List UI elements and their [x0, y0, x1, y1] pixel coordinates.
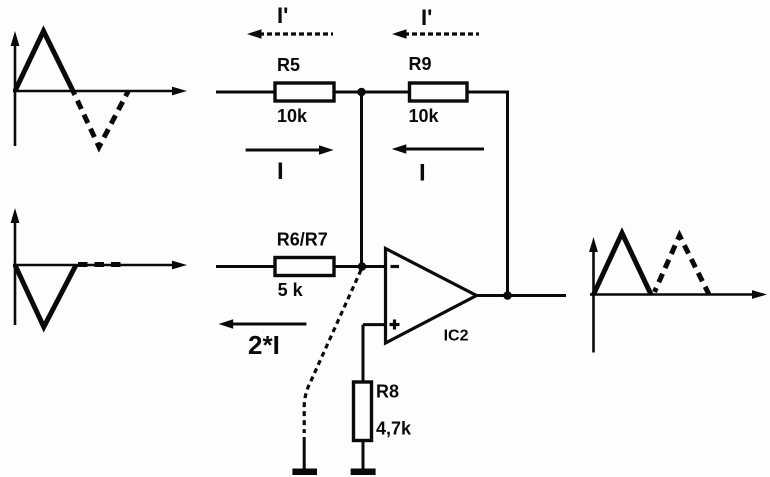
- input waveform 2 vertical axis: [11, 208, 20, 325]
- input waveform 1 solid positive triangle half-wave: [15, 31, 73, 91]
- output waveform dashed triangle pulse: [655, 236, 710, 295]
- output waveform solid triangle pulse: [594, 233, 652, 295]
- svg-text:R6/R7: R6/R7: [277, 230, 328, 250]
- wire: R9 right to feedback corner: [467, 91, 508, 94]
- svg-text:R9: R9: [409, 54, 432, 74]
- wire: virtual ground stub: [303, 437, 306, 469]
- current arrow I' (dashed, above R5): [247, 29, 333, 38]
- wire: input 1 to R5 left: [216, 91, 275, 94]
- svg-text:10k: 10k: [277, 106, 308, 126]
- wire: feedback vertical down to output node: [506, 91, 509, 296]
- ground (virtual ground): [292, 469, 317, 476]
- wire: non-inverting input horizontal: [363, 323, 386, 326]
- output waveform horizontal axis: [590, 290, 767, 299]
- svg-text:I: I: [277, 158, 284, 185]
- svg-text:R5: R5: [277, 55, 300, 75]
- current arrow I (solid, below R9): [392, 144, 484, 153]
- svg-text:5 k: 5 k: [278, 280, 304, 300]
- op-amp IC2 non-inverting input plus sign: [390, 320, 400, 330]
- wire: op-amp output to output node: [477, 294, 508, 297]
- junction: inverting input node dot: [358, 262, 367, 271]
- svg-text:I: I: [419, 160, 426, 187]
- input waveform 2 horizontal axis: [13, 261, 187, 270]
- wire: vertical link summing node to inverting node: [360, 92, 363, 267]
- junction: output node dot: [503, 291, 512, 300]
- input waveform 2 solid negative triangle half-wave: [15, 265, 76, 327]
- wire: input 2 to R6/R7 left: [216, 265, 275, 268]
- op-amp IC2 triangle: [386, 249, 477, 344]
- svg-text:I': I': [277, 3, 288, 28]
- wire: R5 right to summing junction: [334, 91, 362, 94]
- input waveform 1 vertical axis: [11, 31, 20, 146]
- current arrow I' (dashed, above R9): [392, 29, 479, 38]
- wire: non-inverting down to R8: [362, 325, 365, 382]
- svg-text:I': I': [421, 5, 432, 30]
- ground (under R8): [351, 469, 376, 476]
- input waveform 1 horizontal axis: [13, 87, 187, 96]
- dashed virtual-ground line from inverting node: [304, 270, 361, 433]
- junction: summing node top dot: [357, 88, 366, 97]
- current arrow 2*I (solid, pointing left): [219, 319, 307, 328]
- input waveform 2 dashed zero segment: [78, 262, 123, 267]
- wire: summing junction to R9 left: [362, 91, 410, 94]
- op-amp IC2 inverting input minus sign: [391, 265, 400, 268]
- resistor R5: [275, 83, 334, 101]
- resistor R9: [410, 83, 468, 101]
- input waveform 1 dashed negative triangle half-wave: [73, 91, 128, 147]
- svg-text:2*I: 2*I: [248, 330, 280, 360]
- current arrow I (solid, below R5): [246, 145, 334, 154]
- resistor R8: [354, 382, 372, 441]
- svg-text:IC2: IC2: [444, 328, 469, 345]
- svg-text:4,7k: 4,7k: [376, 419, 412, 439]
- wire: output node to output waveform: [508, 294, 567, 297]
- wire: R8 bottom to ground: [362, 441, 365, 470]
- svg-text:R8: R8: [376, 382, 399, 402]
- resistor R6/R7: [275, 258, 334, 276]
- output waveform vertical axis: [589, 237, 598, 353]
- wire: R6/R7 right to inverting input: [334, 265, 386, 268]
- svg-text:10k: 10k: [409, 106, 440, 126]
